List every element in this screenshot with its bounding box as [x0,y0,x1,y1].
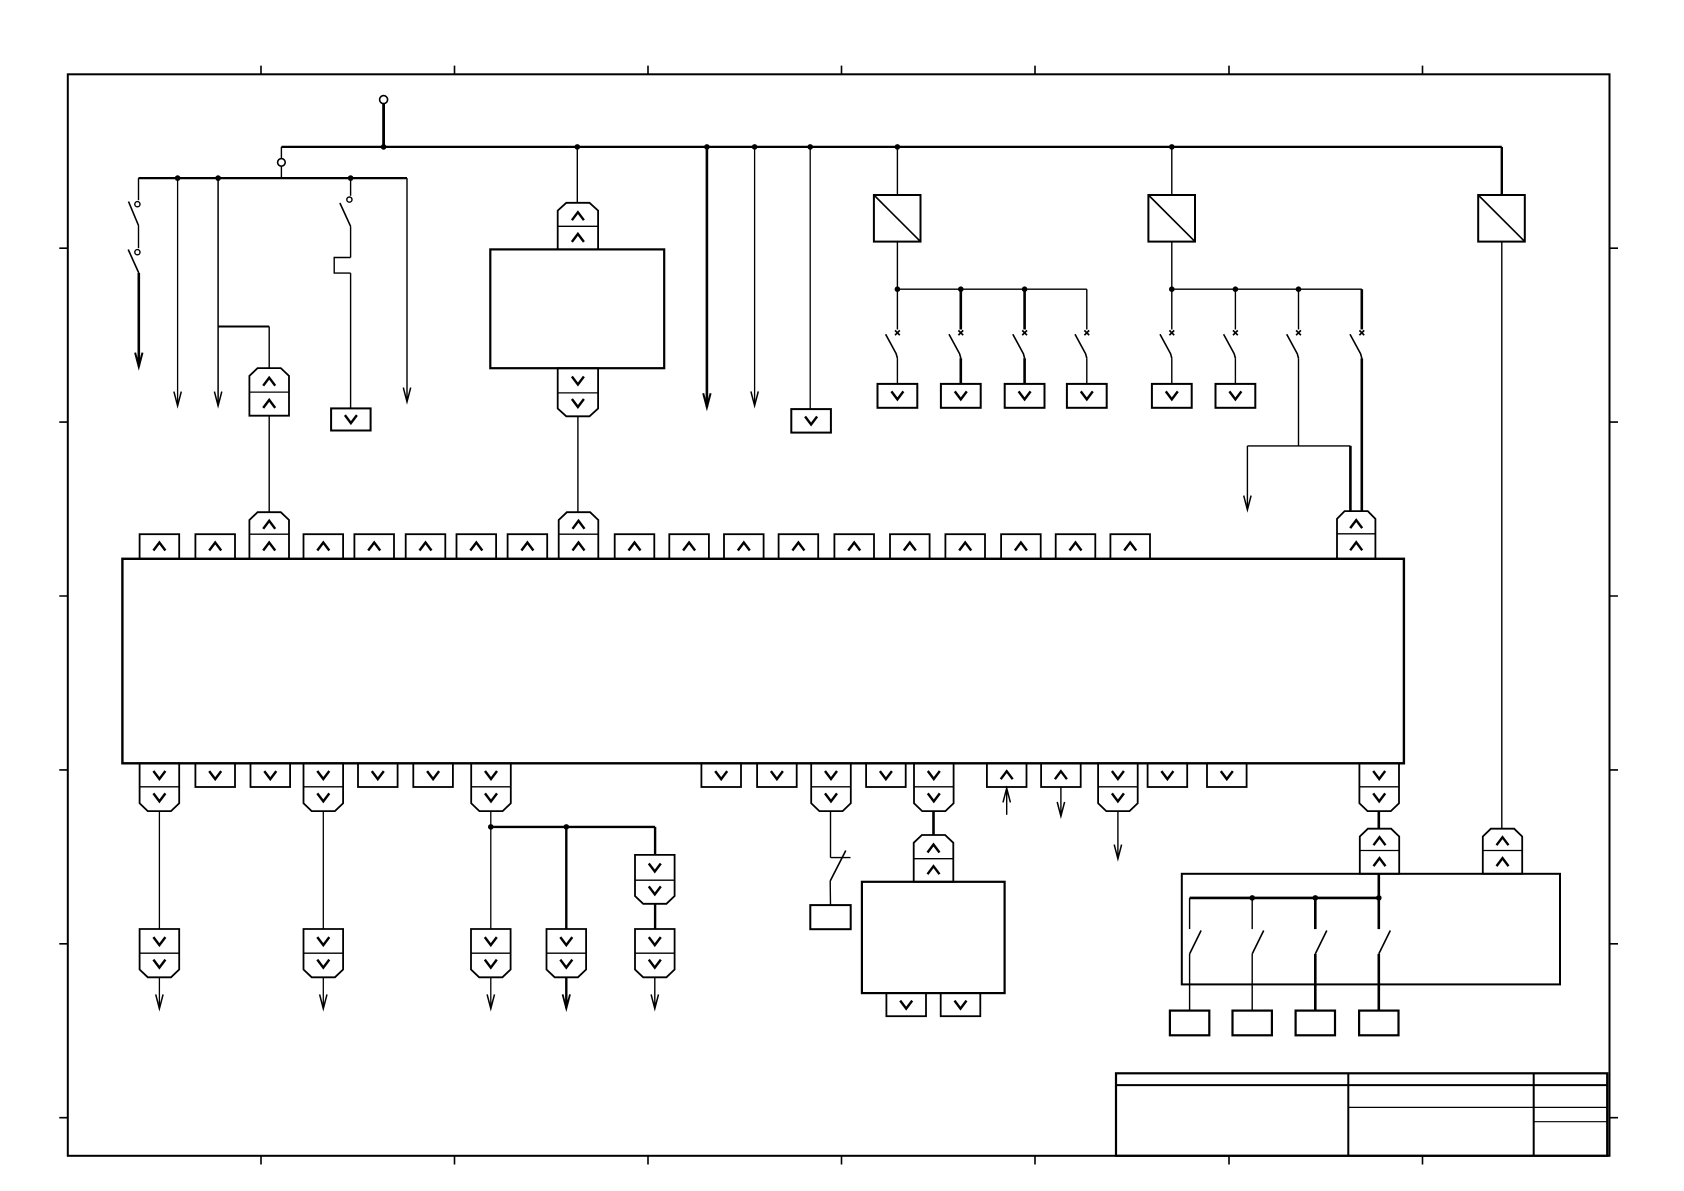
pin down 9 on J519 bottom row [1207,763,1247,787]
pin down V1 left [886,993,926,1016]
pin down V1 right [941,993,981,1016]
sub bus [139,177,408,179]
wire main bus right end to fuse SC [1501,147,1503,195]
fuse branch 2.1 pin box [1152,384,1192,408]
wire chain C3 down [654,827,656,855]
fuse branch 1.1 wire lower [896,358,898,384]
chain C horizontal bus [491,826,655,828]
control unit box J500 [490,249,664,368]
fuse branch 1.4 wire lower [1086,358,1088,384]
title block horizontal divider middle/right [1348,1106,1607,1108]
relay contact 4 wire upper [1378,898,1381,929]
wire fuse SB to distribution [1171,242,1173,290]
wire drop to sub bus [280,147,282,159]
wire main bus to unit J500 [576,147,578,203]
fuse branch 1.4 wire upper [1086,289,1088,329]
wire sub bus to S2 [350,178,352,196]
wire below terminal 15 [280,166,282,178]
fuse branch 2.4 switch blade [1350,334,1362,358]
junction main bus arrow 1 [704,144,710,150]
fuse branch 2.2 contact x-mark [1233,330,1238,335]
connector plug relay K1 (2-cell up) [1360,829,1399,874]
junction chain C [488,824,494,830]
relay output box 3 [1296,1011,1335,1036]
connector 2-cell down d on J519 bottom row [811,763,851,811]
relay output box 1 [1170,1011,1209,1036]
connector plug J500 pin row (2-cell up) [559,512,599,559]
signal arrow up into J519 [1006,789,1008,815]
connector 2-cell down g on J519 bottom row [1359,763,1399,811]
relay contact 3 wire upper [1314,898,1317,929]
junction dist 1c [1022,286,1028,292]
off-page arrow wire 4 (thick) [706,147,709,407]
pin down 2 on J519 bottom row [251,763,291,787]
fuse branch 2.1 wire lower [1171,358,1173,384]
junction dist 2b [1233,286,1239,292]
fuse branch 1.2 wire lower [959,358,962,384]
wire chain A down [158,811,160,929]
connector plug chain C1 (2-cell down) [471,929,511,977]
pin up 15 on J519 top row [1001,534,1041,559]
wire chain G down [1378,811,1381,829]
switch S2 contact circle [347,197,352,202]
terminal circle 30 [380,96,388,104]
off-page arrow chain C1 [490,977,492,1008]
relay contact 2 wire upper [1251,898,1253,929]
junction dist 2a [1169,286,1175,292]
junction relay bus a [1249,895,1255,901]
pin up 4 on J519 top row [354,534,394,559]
off-page arrow wire 2 [217,327,219,406]
fuse branch 1.2 pin box [941,384,981,408]
pin down 3 on J519 bottom row [358,763,398,787]
tee horizontal wire [218,326,269,328]
wire feed from terminal 30 [382,104,385,147]
relay contact 4 wire lower [1378,954,1381,1011]
fuse branch 2.2 pin box [1216,384,1256,408]
wire chain C3 between connectors [654,904,656,929]
wire chain C1 down [490,827,492,929]
pin up 10 on J519 top row [724,534,764,559]
connector plug chain C2 (2-cell down) [547,929,587,977]
thermal element jog [334,258,350,274]
wire relay internal feed [1378,874,1381,898]
junction main bus pin drop [807,144,813,150]
off-page arrow chain C2 [565,977,567,1008]
connector 2-cell down e on J519 bottom row [914,763,954,811]
long wire fuse SC to relay connector [1501,242,1503,829]
relay internal bus [1190,897,1379,900]
wire S2 to thermal element [350,226,352,257]
relay contact 1 wire upper [1189,898,1191,929]
wire branch with tee [217,178,219,326]
junction main bus at unit J500 [575,144,581,150]
connector plug on unit J500 (2-pin up) [558,203,598,250]
pin down 5 on J519 bottom row [701,763,741,787]
fuse branch 2.4 wire lower [1361,358,1364,511]
connector pin box mid [791,409,831,433]
junction main bus fuse SB [1169,144,1175,150]
off-page arrow chain F [1117,811,1119,858]
fuse branch 1.1 contact x-mark [895,330,900,335]
wire main bus to fuse SA [896,147,898,195]
title block horizontal divider right [1534,1121,1608,1123]
wire tee down to connector [268,327,270,369]
connector 2-cell down b on J519 bottom row [304,763,344,811]
wire chain B down [322,811,324,929]
pin down 4 on J519 bottom row [413,763,453,787]
relay contact 2 wire lower [1251,954,1253,1011]
tee wire horizontal [1247,445,1350,447]
fuse branch 1.4 switch blade [1075,334,1087,358]
pin up out 2 on J519 bottom row [1041,763,1081,787]
wire connector T2a to pin row [268,416,270,513]
fuse branch 2.1 wire upper [1171,289,1173,329]
relay contact 3 wire lower [1314,954,1317,1011]
off-page arrow wire 5 [754,147,756,405]
wire sub bus left end down [138,178,140,200]
relay output box 4 [1359,1011,1398,1036]
junction sub bus b [215,175,221,181]
wire tee to connector plug [1349,446,1352,511]
connector plug T2a pin row (2-cell up) [249,512,289,559]
frame tick marks left/right [59,248,1618,1117]
pin up 1 on J519 top row [140,534,180,559]
pin down 1 on J519 bottom row [195,763,235,787]
pin down 8 on J519 bottom row [1148,763,1188,787]
switch S1 lower blade [128,250,139,274]
wire between S1 contacts [138,226,140,249]
wire main bus to fuse SB [1171,147,1173,195]
pin up out 1 on J519 bottom row [987,763,1027,787]
junction relay bus b [1313,895,1319,901]
connector plug motor V1 (2-cell up) [914,835,954,882]
fuse branch 1.2 wire upper [959,289,962,329]
wire S1 output with off-page arrow [138,273,141,366]
pin up 17 on J519 top row [1110,534,1150,559]
pin up 7 on J519 top row [508,534,548,559]
pin down 7 on J519 bottom row [866,763,906,787]
switch S2 blade [340,203,351,226]
off-page arrow wire 1 [177,178,179,405]
junction sub bus a [175,175,181,181]
fuse branch 1.2 contact x-mark [958,330,963,335]
fuse branch 2.3 contact x-mark [1296,330,1301,335]
pin up 16 on J519 top row [1056,534,1096,559]
switch S1 upper contact circle [135,202,140,207]
junction main bus arrow 2 [752,144,758,150]
fuse branch 2.3 wire to tee [1298,358,1300,446]
relay contact 1 wire lower [1189,954,1191,1011]
connector 2-cell down a on J519 bottom row [140,763,180,811]
component box chain D [810,905,850,929]
connector plug chain C3 lower (2-cell down) [635,929,675,977]
connector plug under unit J500 (2-pin down) [558,368,598,416]
fuse SA (square symbol) [874,195,921,242]
connector plug chain B (2-cell down) [304,929,344,977]
fuse branch 1.1 wire upper [896,289,898,329]
junction on main bus at feed [381,144,387,150]
off-page arrow wire 6 [1246,446,1248,510]
junction main bus fuse SA [895,144,901,150]
frame tick marks top/bottom [261,66,1423,1165]
fuse branch 2.2 wire lower [1234,358,1236,384]
wire fuse SA to distribution [896,242,898,290]
relay contact 3 blade [1315,931,1327,954]
connector plug T2a (2-pin up) [249,368,289,416]
connector plug chain A (2-cell down) [140,929,180,977]
off-page arrow chain A [158,977,160,1008]
wire chain C down [490,811,492,827]
pin up 5 on J519 top row [406,534,446,559]
relay contact 4 blade [1379,931,1391,954]
title block vertical divider 2 [1533,1073,1535,1156]
main supply bus [281,146,1501,148]
fuse branch 2.1 switch blade [1160,334,1172,358]
fuse branch 1.3 wire upper [1023,289,1026,329]
wire chain C2 down [565,827,567,929]
motor unit box V1 [862,882,1005,993]
fuse branch 2.2 switch blade [1224,334,1236,358]
title block vertical divider 1 [1347,1073,1349,1156]
pin up 6 on J519 top row [457,534,497,559]
relay contact 2 blade [1252,931,1264,954]
junction dist 1b [958,286,964,292]
fuse branch 2.4 wire upper [1361,289,1364,329]
fuse branch 2.3 wire upper [1298,289,1300,329]
fuse branch 2.2 wire upper [1234,289,1236,329]
fuse SA distribution bus [897,288,1086,290]
junction sub bus c [348,175,354,181]
wire unit J500 to pin row [577,416,579,512]
fuse branch 1.1 switch blade [886,334,898,358]
junction chain C mid [564,824,570,830]
fuse SB distribution bus [1172,288,1362,290]
wire thermal switch down [829,881,831,905]
fuse branch 2.3 switch blade [1287,334,1299,358]
title block header band line [1116,1084,1607,1086]
connector pin box S2 output [331,408,371,430]
fuse branch 1.1 pin box [878,384,918,408]
switch S1 upper blade [129,202,139,226]
fuse branch 2.4 contact x-mark [1359,330,1364,335]
thermal switch contact bar [831,857,851,859]
fuse branch 1.3 pin box [1005,384,1045,408]
thermal switch blade [830,851,846,882]
off-page arrow wire 3 (sub bus right end) [406,178,408,401]
fuse SC (square symbol) [1478,195,1525,242]
junction relay bus c [1376,895,1382,901]
pin up 8 on J519 top row [615,534,655,559]
pin up 3 on J519 top row [304,534,344,559]
relay output box 2 [1233,1011,1272,1036]
pin up 11 on J519 top row [779,534,819,559]
connector plug T2b (2-pin up) on pin row [1337,511,1375,559]
junction dist 2c [1296,286,1302,292]
wire main bus to pin box [809,147,811,409]
connector plug chain C3 upper (2-cell down) [635,855,675,904]
central control unit box J519 [122,559,1404,764]
fuse branch 1.2 switch blade [949,334,961,358]
fuse branch 1.3 switch blade [1013,334,1025,358]
pin up 13 on J519 top row [890,534,930,559]
signal arrow down from J519 [1060,787,1062,816]
fuse branch 1.3 contact x-mark [1022,330,1027,335]
fuse branch 1.3 wire lower [1023,358,1026,384]
fuse SB (square symbol) [1148,195,1195,242]
pin down 6 on J519 bottom row [757,763,797,787]
fuse branch 1.4 pin box [1067,384,1107,408]
connector 2-cell down c on J519 bottom row [471,763,511,811]
wire chain E down [932,811,935,835]
pin up 9 on J519 top row [669,534,709,559]
terminal circle 15 [278,159,286,167]
junction dist 1a [895,286,901,292]
wire chain D down [830,811,832,858]
fuse branch 1.4 contact x-mark [1084,330,1089,335]
fuse branch 2.1 contact x-mark [1169,330,1174,335]
wire thermal element down [350,273,352,408]
relay contact 1 blade [1190,931,1202,954]
pin up 14 on J519 top row [945,534,985,559]
relay unit box K [1182,874,1560,985]
switch S1 lower contact circle [135,250,140,255]
pin up 2 on J519 top row [195,534,235,559]
pin up 12 on J519 top row [834,534,874,559]
off-page arrow chain B [322,977,324,1008]
connector plug relay K2 (2-cell up) [1483,829,1522,874]
off-page arrow chain C3 [654,977,656,1008]
title block outline [1116,1073,1607,1156]
connector 2-cell down f on J519 bottom row [1098,763,1138,811]
